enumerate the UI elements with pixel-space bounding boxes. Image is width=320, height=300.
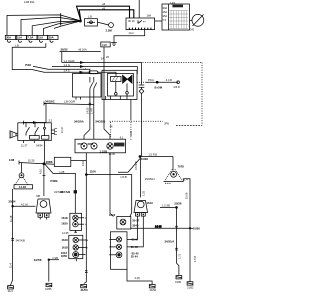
- svg-text:34/32/B: 34/32/B: [95, 119, 105, 123]
- svg-text:2A: 2A: [101, 57, 104, 61]
- svg-text:3543: 3543: [132, 224, 139, 228]
- svg-text:14.55: 14.55: [86, 107, 90, 114]
- svg-text:35 44: 35 44: [131, 254, 138, 258]
- svg-text:31/53: 31/53: [81, 288, 88, 292]
- svg-text:16A: 16A: [147, 13, 152, 17]
- svg-text:+A: +A: [83, 67, 87, 71]
- svg-text:4 B R: 4 B R: [173, 85, 180, 89]
- svg-text:1.5 SB: 1.5 SB: [162, 203, 170, 207]
- svg-text:15.06: 15.06: [185, 192, 189, 199]
- svg-text:14/8 30A: 14/8 30A: [24, 0, 35, 4]
- svg-text:34J: 34J: [190, 28, 195, 32]
- svg-text:1618: 1618: [62, 245, 69, 249]
- svg-text:1618: 1618: [61, 216, 68, 220]
- svg-text:35-57: 35-57: [132, 219, 140, 223]
- svg-text:M8: M8: [36, 194, 40, 198]
- svg-text:-35 M: -35 M: [131, 237, 139, 241]
- svg-text:30A: 30A: [6, 36, 11, 40]
- svg-text:55W: 55W: [78, 142, 84, 146]
- svg-text:10/38: 10/38: [141, 157, 148, 161]
- svg-text:35 48: 35 48: [131, 245, 138, 249]
- svg-text:11 37: 11 37: [21, 143, 28, 147]
- svg-text:11.37: 11.37: [60, 126, 64, 133]
- svg-text:L.B: L.B: [88, 15, 92, 19]
- svg-text:31/51: 31/51: [175, 280, 182, 284]
- svg-text:15A: 15A: [163, 10, 168, 14]
- svg-text:7.5A: 7.5A: [28, 36, 34, 40]
- svg-text:PN A: PN A: [148, 78, 154, 82]
- svg-text:34/7/8: 34/7/8: [34, 258, 42, 262]
- svg-text:1613: 1613: [147, 201, 154, 205]
- svg-text:14.05: 14.05: [109, 152, 116, 156]
- svg-text:34/34: 34/34: [36, 143, 43, 147]
- svg-text:+B 16A: +B 16A: [78, 48, 87, 52]
- svg-text:4.135: 4.135: [62, 231, 69, 235]
- svg-text:1.4 G: 1.4 G: [64, 63, 70, 67]
- svg-text:30A: 30A: [49, 36, 54, 40]
- svg-text:+B: +B: [102, 2, 106, 6]
- svg-text:34/31/A: 34/31/A: [165, 240, 175, 244]
- svg-text:13/8: 13/8: [102, 43, 108, 47]
- svg-text:14/8: 14/8: [9, 158, 15, 162]
- svg-text:34/32/C: 34/32/C: [45, 100, 55, 104]
- svg-text:1 SB: 1 SB: [52, 256, 58, 260]
- svg-text:1.05: 1.05: [129, 130, 133, 136]
- svg-text:L.B: L.B: [15, 44, 19, 48]
- svg-text:7078: 7078: [178, 165, 185, 169]
- svg-text:15A: 15A: [17, 36, 22, 40]
- svg-text:1.25: 1.25: [141, 190, 145, 196]
- svg-text:2.2: 2.2: [49, 118, 53, 122]
- svg-text:B+5M: B+5M: [155, 86, 163, 90]
- svg-text:1.4 OG/R: 1.4 OG/R: [64, 59, 75, 63]
- svg-text:20/26: 20/26: [174, 202, 181, 206]
- svg-text:26/32: 26/32: [61, 48, 68, 52]
- svg-text:+B: +B: [102, 6, 106, 10]
- svg-text:JPN: JPN: [164, 121, 169, 125]
- svg-text:4.10: 4.10: [39, 168, 43, 174]
- svg-text:1612: 1612: [109, 213, 116, 217]
- svg-text:6.1: 6.1: [120, 136, 124, 140]
- svg-text:11.18: 11.18: [9, 215, 13, 222]
- svg-text:15A: 15A: [163, 14, 168, 18]
- svg-text:1.5 B: 1.5 B: [193, 256, 197, 262]
- svg-text:26D8: 26D8: [46, 160, 53, 164]
- svg-text:10/36: 10/36: [193, 227, 200, 231]
- svg-text:31/4: 31/4: [8, 289, 14, 293]
- svg-text:31/52: 31/52: [187, 286, 194, 290]
- svg-text:1.1SB: 1.1SB: [99, 149, 107, 153]
- svg-text:1106: 1106: [90, 170, 97, 174]
- svg-text:1.05: 1.05: [59, 170, 65, 174]
- svg-text:7.5: 7.5: [163, 18, 167, 22]
- svg-text:60W: 60W: [88, 142, 94, 146]
- svg-text:31/55: 31/55: [45, 287, 52, 291]
- svg-text:25/26/11: 25/26/11: [145, 177, 155, 181]
- svg-text:34/32/A: 34/32/A: [74, 119, 84, 123]
- svg-text:2.2M: 2.2M: [106, 28, 113, 32]
- svg-text:10.30: 10.30: [28, 158, 35, 162]
- svg-text:14 38: 14 38: [155, 225, 162, 229]
- svg-text:14.2: 14.2: [129, 31, 135, 35]
- svg-text:1.4 R: 1.4 R: [90, 108, 94, 114]
- svg-text:31/50: 31/50: [150, 288, 157, 292]
- svg-text:4.4 R: 4.4 R: [166, 78, 172, 82]
- svg-text:14.48: 14.48: [19, 185, 26, 189]
- svg-text:35/34: 35/34: [8, 199, 15, 203]
- svg-text:34/7A/B: 34/7A/B: [16, 238, 25, 242]
- svg-text:1650: 1650: [61, 254, 68, 258]
- svg-text:15A: 15A: [38, 36, 43, 40]
- svg-text:30 10: 30 10: [128, 19, 135, 23]
- svg-text:1 R.B: 1 R.B: [120, 175, 127, 179]
- svg-text:1616: 1616: [62, 238, 69, 242]
- svg-text:0.5 R.B: 0.5 R.B: [134, 161, 138, 170]
- svg-text:11.4: 11.4: [9, 263, 13, 268]
- svg-text:4 (8): 4 (8): [135, 276, 140, 280]
- svg-text:4.10: 4.10: [81, 160, 85, 166]
- svg-text:14/3: 14/3: [170, 1, 176, 5]
- svg-text:1.5 R.B: 1.5 R.B: [148, 153, 157, 157]
- svg-text:4.1 M: 4.1 M: [21, 203, 28, 207]
- svg-text:34/7A/B: 34/7A/B: [54, 190, 63, 194]
- svg-text:1.4: 1.4: [184, 177, 188, 181]
- svg-text:30A: 30A: [163, 6, 168, 10]
- svg-text:1.4 S: 1.4 S: [64, 69, 70, 73]
- svg-text:1630: 1630: [61, 222, 68, 226]
- svg-text:L.B OG/R: L.B OG/R: [64, 100, 75, 104]
- svg-text:7/32B: 7/32B: [50, 179, 57, 183]
- svg-text:1.75: 1.75: [178, 253, 182, 259]
- svg-text:P/03: P/03: [25, 63, 31, 67]
